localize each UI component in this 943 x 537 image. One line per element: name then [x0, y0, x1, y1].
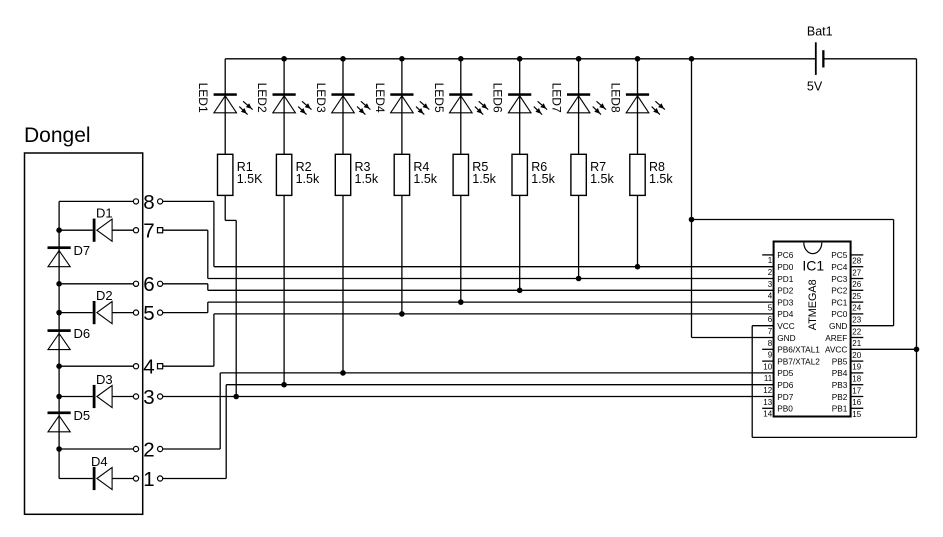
svg-text:D1: D1 — [96, 206, 113, 221]
pin pad 5 inner — [133, 310, 138, 315]
LED LED6 — [508, 93, 531, 96]
pin 16 stub — [851, 396, 864, 398]
wire GND to IC pin8 — [692, 337, 774, 339]
wire GND to IC pin22 — [851, 325, 894, 327]
wire LED1 column — [224, 59, 226, 155]
wire LED6 column — [519, 59, 521, 155]
pin 14 stub — [762, 407, 773, 409]
wire R2 down — [283, 195, 285, 384]
junction R2 row — [281, 382, 287, 388]
svg-text:IC1: IC1 — [802, 258, 824, 274]
LED LED8 — [626, 93, 649, 96]
svg-text:PD2: PD2 — [777, 286, 794, 296]
pin pad 8 outer — [158, 199, 163, 204]
diode D3 — [59, 396, 93, 398]
connector J1 Dongel box — [25, 153, 143, 514]
wire pin8 horizontal — [163, 200, 214, 202]
svg-text:9: 9 — [768, 351, 773, 360]
svg-text:AREF: AREF — [825, 333, 847, 343]
wire net PD3 row — [208, 301, 774, 303]
svg-text:LED2: LED2 — [255, 83, 269, 113]
svg-text:24: 24 — [852, 304, 861, 313]
junction R5 row — [458, 299, 464, 305]
pin 28 stub — [851, 254, 864, 256]
svg-text:5: 5 — [768, 303, 773, 312]
svg-text:8: 8 — [768, 339, 773, 348]
svg-text:6: 6 — [768, 315, 773, 324]
svg-text:27: 27 — [852, 268, 861, 277]
svg-text:GND: GND — [777, 333, 795, 343]
wire pin7 horizontal — [163, 229, 208, 231]
pin 26 stub — [851, 278, 864, 280]
wire net PD1 row — [208, 278, 774, 280]
op-amp IC1 ATMEGA8 body — [774, 242, 851, 417]
svg-text:LED6: LED6 — [491, 83, 505, 113]
svg-text:7: 7 — [143, 220, 154, 243]
svg-text:VCC: VCC — [777, 321, 795, 331]
svg-text:D5: D5 — [74, 408, 91, 423]
pin pad 1 inner — [133, 476, 138, 481]
svg-text:15: 15 — [852, 410, 861, 419]
wire pin2 vertical — [219, 373, 221, 449]
wire GND branch top — [692, 219, 894, 221]
svg-text:2: 2 — [768, 268, 773, 277]
svg-text:4: 4 — [143, 356, 154, 379]
svg-text:1.5k: 1.5k — [472, 172, 496, 186]
pin pad 3 inner — [133, 394, 138, 399]
pin pad 2 outer — [158, 446, 163, 451]
diode D4 — [59, 478, 93, 480]
svg-text:1.5k: 1.5k — [590, 172, 614, 186]
junction R4 row — [399, 311, 405, 317]
junction R6 row — [517, 288, 523, 294]
svg-text:PC3: PC3 — [831, 274, 848, 284]
svg-text:PB3: PB3 — [832, 380, 848, 390]
svg-text:4: 4 — [768, 292, 773, 301]
junction chain-D1 — [56, 227, 62, 233]
wire VCC to IC pin7 — [752, 325, 773, 327]
svg-text:PB2: PB2 — [832, 392, 848, 402]
resistor R1 — [218, 154, 233, 195]
wire pin2 horizontal — [163, 448, 221, 450]
battery Bat1 negative plate — [822, 50, 824, 67]
pin 21 stub — [851, 337, 864, 339]
LED LED1 — [214, 93, 237, 96]
diode D1 — [59, 229, 93, 231]
wire +5V bus — [225, 58, 815, 60]
wire AVCC to IC pin20 — [851, 348, 917, 350]
wire pin4 vertical — [213, 314, 215, 366]
svg-text:26: 26 — [852, 280, 861, 289]
wire GND vertical from bus — [691, 59, 693, 338]
junction chain-D3 — [56, 394, 62, 400]
wire pin6 vertical — [207, 284, 209, 291]
pin 25 stub — [851, 289, 864, 291]
svg-text:5V: 5V — [807, 80, 823, 94]
junction bus-LED2 — [281, 56, 287, 62]
wire LED4 column — [401, 59, 403, 155]
svg-text:LED4: LED4 — [373, 83, 387, 113]
pin 27 stub — [851, 266, 864, 268]
svg-text:PC4: PC4 — [831, 262, 848, 272]
junction chain-D2 — [56, 310, 62, 316]
svg-text:PD6: PD6 — [777, 380, 794, 390]
wire pin1 horizontal — [163, 478, 227, 480]
svg-text:13: 13 — [763, 398, 772, 407]
svg-text:PC6: PC6 — [777, 250, 794, 260]
junction bus-LED7 — [576, 56, 582, 62]
svg-text:3: 3 — [768, 280, 773, 289]
svg-text:D6: D6 — [74, 326, 91, 341]
resistor R8 — [630, 154, 645, 195]
svg-text:PC5: PC5 — [831, 250, 848, 260]
svg-text:PD5: PD5 — [777, 368, 794, 378]
diode D7 — [48, 246, 71, 249]
svg-text:1.5k: 1.5k — [296, 172, 320, 186]
svg-text:3: 3 — [143, 386, 154, 409]
wire LED3 column — [342, 59, 344, 155]
wire LED5 column — [460, 59, 462, 155]
svg-text:LED8: LED8 — [609, 83, 623, 113]
wire net PD4 row — [214, 313, 774, 315]
pin pad 1 outer — [158, 476, 163, 481]
svg-text:5: 5 — [143, 302, 154, 325]
pin pad 4 inner — [133, 364, 138, 369]
svg-text:D2: D2 — [96, 288, 113, 303]
junction chain-pin4 — [56, 363, 62, 369]
svg-text:LED1: LED1 — [196, 83, 210, 113]
wire R6 down — [519, 195, 521, 290]
svg-text:1.5K: 1.5K — [237, 172, 263, 186]
wire R5 down — [460, 195, 462, 302]
svg-text:20: 20 — [852, 351, 861, 360]
pin 9 stub — [762, 348, 773, 350]
pin pad 6 inner — [133, 281, 138, 286]
wire GND branch down — [893, 220, 895, 326]
svg-text:12: 12 — [763, 386, 772, 395]
junction bus-GND branch — [689, 56, 695, 62]
svg-text:D3: D3 — [96, 372, 113, 387]
diode D6 — [48, 329, 71, 332]
wire pin4 horizontal — [163, 365, 214, 367]
pin 19 stub — [851, 360, 864, 362]
svg-text:14: 14 — [763, 410, 772, 419]
resistor R3 — [335, 154, 350, 195]
wire dongle internal chain — [58, 201, 60, 478]
svg-text:PB0: PB0 — [777, 404, 793, 414]
pin pad 2 inner — [133, 446, 138, 451]
svg-text:11: 11 — [764, 374, 773, 383]
diode D5 — [48, 411, 71, 414]
svg-text:1: 1 — [768, 256, 773, 265]
svg-text:PC0: PC0 — [831, 309, 848, 319]
svg-text:D7: D7 — [74, 243, 91, 258]
LED LED5 — [449, 93, 472, 96]
svg-text:LED3: LED3 — [314, 83, 328, 113]
svg-text:PD0: PD0 — [777, 262, 794, 272]
svg-text:22: 22 — [852, 327, 861, 336]
resistor R2 — [276, 154, 291, 195]
wire pin6 internal — [59, 283, 133, 285]
pin pad 6 outer — [158, 281, 163, 286]
wire bus to battery right — [823, 58, 916, 60]
battery Bat1 positive plate — [815, 42, 817, 75]
wire net PD0 row — [214, 266, 774, 268]
svg-text:PD7: PD7 — [777, 392, 794, 402]
svg-text:2: 2 — [143, 438, 154, 461]
wire pin5 horizontal — [163, 312, 208, 314]
junction bus-LED6 — [517, 56, 523, 62]
wire net PD5 row — [220, 372, 773, 374]
svg-text:1.5k: 1.5k — [649, 172, 673, 186]
junction chain-pin6 — [56, 281, 62, 287]
junction AVCC — [914, 347, 920, 353]
svg-text:16: 16 — [852, 398, 861, 407]
LED LED3 — [331, 93, 354, 96]
pin 1 stub — [762, 254, 773, 256]
wire LED2 column — [283, 59, 285, 155]
pin 18 stub — [851, 372, 864, 374]
svg-text:PB5: PB5 — [832, 356, 848, 366]
svg-text:1: 1 — [143, 468, 154, 491]
svg-text:LED5: LED5 — [432, 83, 446, 113]
wire R3 down — [342, 195, 344, 373]
resistor R6 — [512, 154, 527, 195]
pin pad 7 inner — [133, 228, 138, 233]
junction bus-LED8 — [635, 56, 641, 62]
svg-text:PD4: PD4 — [777, 309, 794, 319]
svg-text:25: 25 — [852, 292, 861, 301]
junction chain-pin2 — [56, 446, 62, 452]
pin pad 4 outer — [158, 364, 163, 369]
svg-text:21: 21 — [852, 339, 861, 348]
svg-text:PC1: PC1 — [831, 297, 848, 307]
wire net PD6 row — [226, 384, 773, 386]
wire pin5 vertical — [207, 302, 209, 313]
wire R8 down — [637, 195, 639, 266]
junction bus-LED3 — [340, 56, 346, 62]
junction bus-LED4 — [399, 56, 405, 62]
wire R7 down — [578, 195, 580, 278]
svg-text:GND: GND — [829, 321, 847, 331]
svg-text:PB1: PB1 — [832, 404, 848, 414]
junction bus-LED5 — [458, 56, 464, 62]
svg-text:23: 23 — [852, 316, 861, 325]
pin 17 stub — [851, 384, 864, 386]
svg-text:19: 19 — [852, 363, 861, 372]
svg-text:Bat1: Bat1 — [807, 25, 833, 39]
pin 23 stub — [851, 313, 864, 315]
svg-text:6: 6 — [143, 273, 154, 296]
junction R7 row — [576, 276, 582, 282]
wire R1 down jog — [224, 195, 226, 220]
svg-text:PD1: PD1 — [777, 274, 794, 284]
wire R4 down — [401, 195, 403, 314]
pin 24 stub — [851, 301, 864, 303]
svg-text:LED7: LED7 — [550, 83, 564, 113]
svg-text:1.5k: 1.5k — [413, 172, 437, 186]
svg-text:1.5k: 1.5k — [531, 172, 555, 186]
pin pad 8 inner — [133, 199, 138, 204]
junction R3 row — [340, 370, 346, 376]
wire pin8 vertical — [213, 201, 215, 266]
wire pin7 vertical — [207, 230, 209, 278]
IC1 notch — [804, 243, 822, 254]
resistor R5 — [453, 154, 468, 195]
svg-text:18: 18 — [852, 375, 861, 384]
pin 10 stub — [762, 360, 773, 362]
svg-text:Dongel: Dongel — [24, 124, 91, 147]
svg-text:10: 10 — [763, 362, 772, 371]
wire LED8 column — [637, 59, 639, 155]
svg-text:ATMEGA8: ATMEGA8 — [807, 279, 819, 330]
wire VCC vertical — [751, 326, 753, 438]
junction R1-PD7 — [233, 394, 239, 400]
junction GND branch — [689, 217, 695, 223]
wire LED7 column — [578, 59, 580, 155]
svg-text:17: 17 — [852, 386, 861, 395]
svg-text:1.5k: 1.5k — [355, 172, 379, 186]
svg-text:8: 8 — [143, 191, 154, 214]
pin pad 7 outer — [158, 228, 163, 233]
pin 15 stub — [851, 407, 864, 409]
wire pin1 vertical — [225, 385, 227, 479]
LED LED2 — [273, 93, 296, 96]
resistor R4 — [394, 154, 409, 195]
pin pad 5 outer — [158, 310, 163, 315]
svg-text:7: 7 — [768, 327, 773, 336]
wire VCC bottom — [752, 436, 916, 438]
wire pin8 internal — [59, 200, 133, 202]
wire battery right vertical — [916, 59, 918, 438]
svg-text:PB6/XTAL1: PB6/XTAL1 — [777, 345, 820, 355]
junction R8 row — [635, 264, 641, 270]
svg-text:AVCC: AVCC — [825, 345, 847, 355]
LED LED7 — [567, 93, 590, 96]
LED LED4 — [390, 93, 413, 96]
pin pad 3 outer — [158, 394, 163, 399]
svg-text:PD3: PD3 — [777, 297, 794, 307]
wire net PD2 row — [208, 289, 774, 291]
svg-text:28: 28 — [852, 257, 861, 266]
wire pin2 internal — [59, 448, 133, 450]
svg-text:PC2: PC2 — [831, 286, 848, 296]
wire pin3 to PD7 row — [163, 396, 774, 398]
svg-text:D4: D4 — [91, 454, 108, 469]
resistor R7 — [571, 154, 586, 195]
diode D2 — [59, 312, 93, 314]
wire pin4 internal — [59, 365, 133, 367]
svg-text:PB7/XTAL2: PB7/XTAL2 — [777, 356, 820, 366]
svg-text:PB4: PB4 — [832, 368, 848, 378]
wire pin6 horizontal — [163, 283, 208, 285]
